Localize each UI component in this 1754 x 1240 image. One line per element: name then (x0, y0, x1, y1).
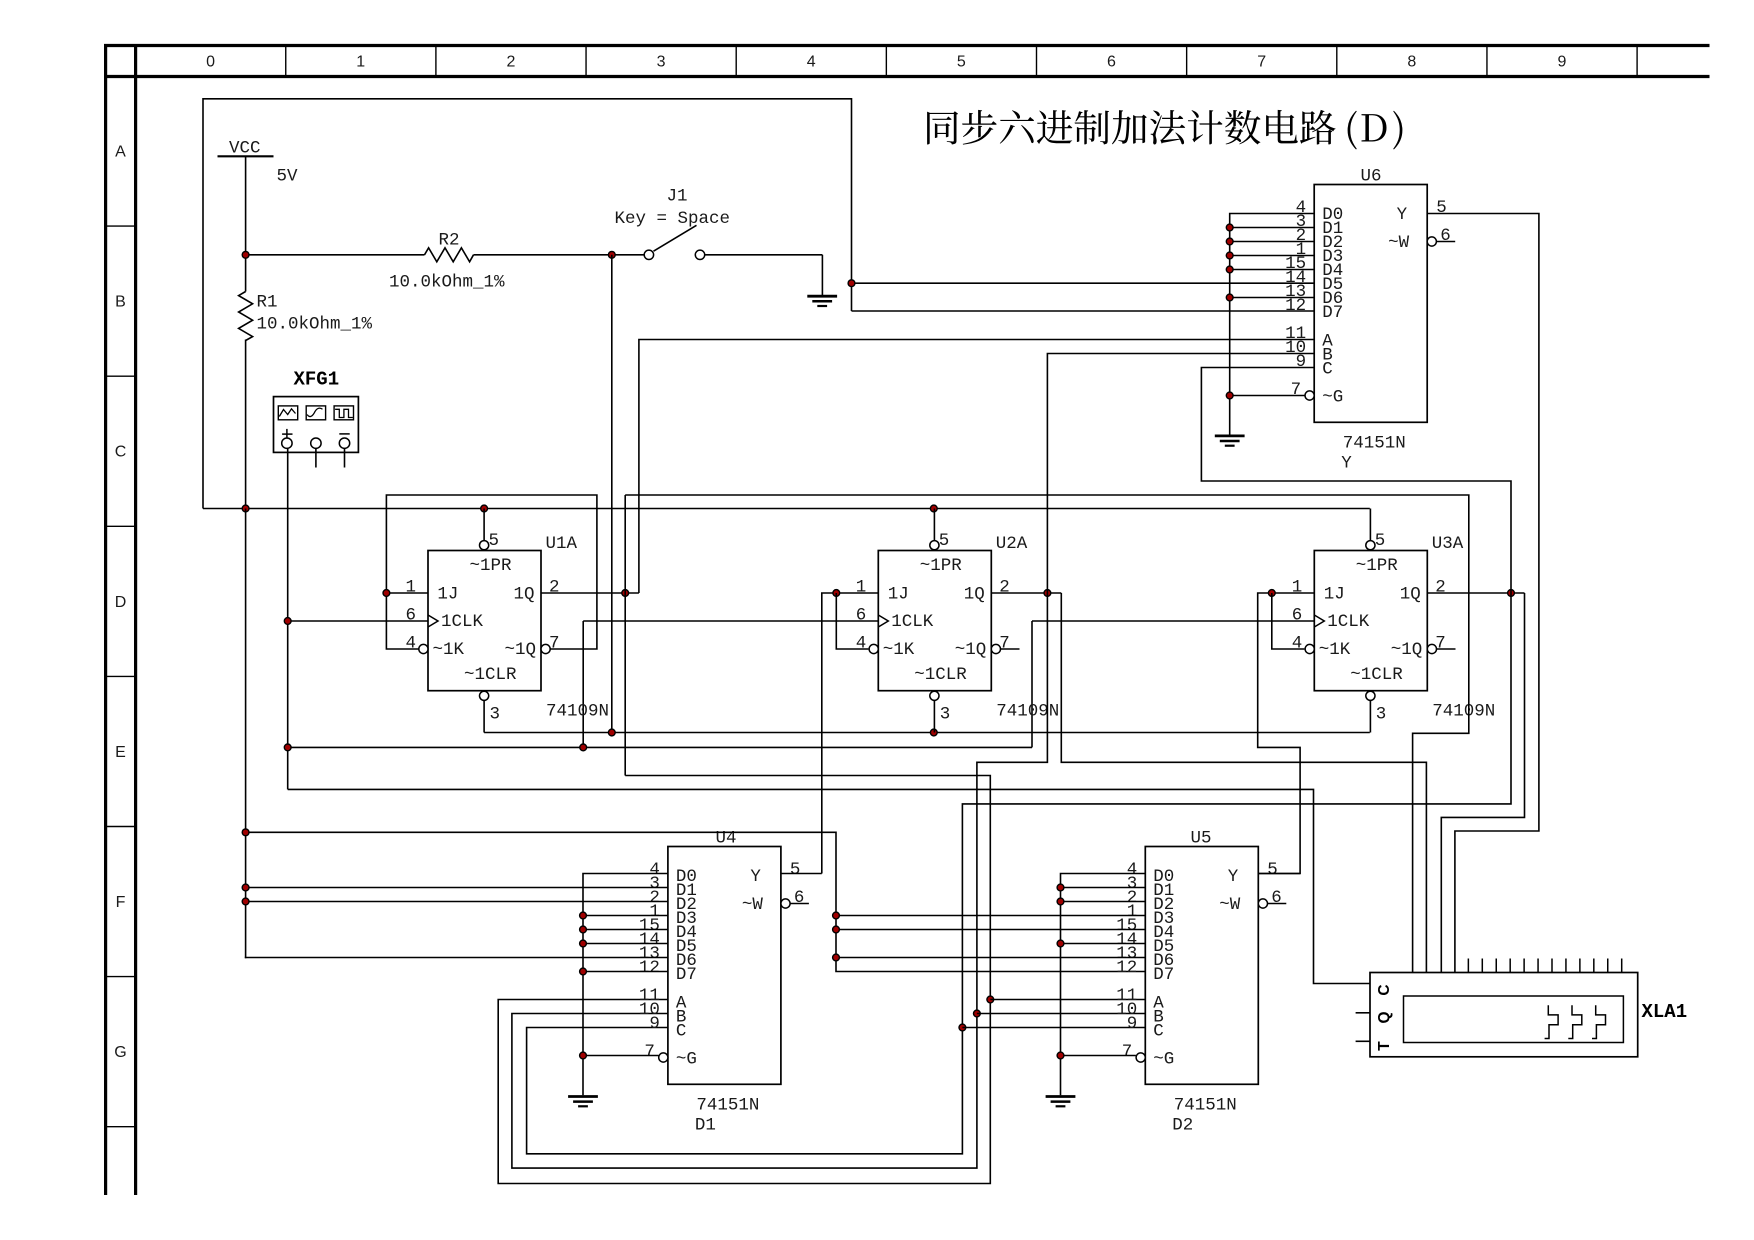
svg-text:~1CLR: ~1CLR (914, 665, 967, 685)
U5 ~W bubble (1258, 899, 1267, 908)
wire clock seg U3A (1032, 620, 1314, 622)
wire QC to XLA1 (1441, 593, 1524, 973)
junction QC U5C (959, 1024, 966, 1031)
wire U5 D3 (836, 915, 1145, 917)
svg-text:D7: D7 (1322, 303, 1343, 323)
wire QA upper run (625, 495, 1469, 973)
wire QB left run (512, 593, 1048, 1168)
svg-text:6: 6 (1292, 606, 1303, 626)
wire U4 D2 (246, 901, 668, 903)
svg-text:~W: ~W (1388, 233, 1410, 253)
U6 ~G bubble (1305, 391, 1314, 400)
svg-text:Y: Y (1228, 867, 1239, 887)
wire QA to U6 A (639, 340, 1314, 594)
XLA1 Q stub (1356, 1012, 1370, 1014)
svg-text:VCC: VCC (229, 139, 261, 159)
wire U6 D4 (1230, 269, 1315, 271)
U1A ~1PR stub (483, 509, 485, 541)
svg-text:Y: Y (750, 867, 761, 887)
U3A ~1K bubble (1305, 644, 1314, 653)
U2A ~1PR bubble (930, 541, 939, 550)
svg-text:J1: J1 (667, 186, 688, 206)
svg-text:U2A: U2A (996, 534, 1028, 554)
junction U4 D3 (580, 912, 587, 919)
U6 ~W stub (1436, 241, 1455, 243)
wire clock rail (288, 746, 1032, 748)
junction U1A PR (481, 505, 488, 512)
svg-text:5: 5 (939, 531, 950, 551)
svg-text:7: 7 (549, 634, 560, 654)
wire U5 B (977, 1013, 1145, 1015)
U2A ~1PR stub (933, 509, 935, 541)
ground (U6) (1215, 434, 1245, 437)
U3A ~1CLR bubble (1366, 691, 1375, 700)
column dividers (285, 46, 287, 76)
svg-text:1J: 1J (1324, 584, 1345, 604)
svg-text:0: 0 (206, 54, 215, 71)
wire U5 D5 (1061, 943, 1146, 945)
wire U2A ~1Q stub (1001, 648, 1020, 650)
svg-text:~1Q: ~1Q (1391, 640, 1423, 660)
svg-text:74151N: 74151N (1174, 1095, 1237, 1115)
flip-flop U1A 74109N (428, 551, 541, 691)
wire U5 ground bus (1061, 874, 1146, 1096)
wire PR rail (203, 508, 1370, 510)
junction clk1 (284, 618, 291, 625)
svg-text:~1Q: ~1Q (955, 640, 987, 660)
svg-text:3: 3 (657, 54, 666, 71)
wire U4-U5 high rail (246, 832, 1146, 971)
svg-text:4: 4 (807, 54, 816, 71)
wire U6 D1 (1230, 227, 1315, 229)
wire QA riser (624, 495, 626, 776)
svg-text:1CLK: 1CLK (891, 612, 934, 632)
junction U5 D4 (833, 926, 840, 933)
junction J1-CLR (608, 729, 615, 736)
svg-text:C: C (115, 444, 127, 461)
svg-text:7: 7 (1122, 1042, 1133, 1062)
U4 ~W stub (790, 903, 809, 905)
svg-text:9: 9 (1296, 352, 1307, 372)
border frame outer (104, 44, 1710, 47)
wire U5 D6 (836, 957, 1145, 959)
wire U6 D2 (1230, 241, 1315, 243)
junction clk2 (284, 744, 291, 751)
junction QB U5B (974, 1010, 981, 1017)
svg-text:D7: D7 (1153, 965, 1174, 985)
row dividers (106, 225, 136, 227)
svg-text:1CLK: 1CLK (1327, 612, 1370, 632)
wire U5 C (962, 1027, 1145, 1029)
wire U4 D1 (246, 887, 668, 889)
svg-text:1Q: 1Q (513, 584, 534, 604)
U5 ~W stub (1268, 903, 1287, 905)
wire U1A 1J stub (386, 592, 428, 594)
wire U5 D2 (1061, 901, 1146, 903)
wire U4 ~G (583, 1055, 659, 1057)
svg-text:74151N: 74151N (696, 1095, 759, 1115)
wire U2A JK link (836, 593, 868, 649)
svg-text:T: T (1376, 1041, 1393, 1051)
wire VCC top loop (203, 99, 852, 509)
junction U6 D4 (1226, 266, 1233, 273)
multiplexer U6 74151N (1314, 185, 1427, 423)
wire U3A 1Q (1427, 592, 1524, 594)
wire U5 D1 (1061, 887, 1146, 889)
U1A ~1CLR stub (483, 701, 485, 733)
U4 ~W bubble (781, 899, 790, 908)
wire XFG1 riser (287, 448, 289, 789)
junction U2A PR (930, 505, 937, 512)
junction R1-PR (242, 505, 249, 512)
junction U4 D4 (580, 926, 587, 933)
junction U5 D2 (1057, 898, 1064, 905)
svg-text:U4: U4 (716, 828, 737, 848)
wire U1A feedback (386, 495, 597, 649)
svg-text:XLA1: XLA1 (1642, 1001, 1688, 1023)
svg-text:C: C (1322, 360, 1333, 380)
svg-text:5V: 5V (277, 167, 299, 187)
junction U6 D3 (1226, 252, 1233, 259)
junction U5 D3 (833, 912, 840, 919)
svg-text:~1CLR: ~1CLR (464, 665, 517, 685)
wire U6 D5 high (852, 282, 1315, 284)
svg-text:6: 6 (1107, 54, 1116, 71)
svg-text:5: 5 (1267, 860, 1278, 880)
junction high rail (242, 829, 249, 836)
wire U6 D6 (1230, 297, 1315, 299)
svg-text:74109N: 74109N (1432, 702, 1495, 722)
svg-text:~1PR: ~1PR (470, 556, 513, 576)
wire U6 ~G (1230, 395, 1305, 397)
wire U5 Y (1258, 873, 1300, 875)
svg-text:U1A: U1A (546, 534, 578, 554)
svg-text:~G: ~G (676, 1050, 697, 1070)
svg-text:~G: ~G (1153, 1050, 1174, 1070)
wire U6 B drop (1047, 354, 1314, 594)
wire U5 A (990, 999, 1145, 1001)
junction U4 D1 (242, 884, 249, 891)
wire clock riser2 (1031, 621, 1033, 747)
svg-text:6: 6 (405, 606, 416, 626)
svg-text:1J: 1J (888, 584, 909, 604)
svg-text:~1CLR: ~1CLR (1350, 665, 1403, 685)
junction U4 D7 (580, 968, 587, 975)
svg-text:A: A (115, 144, 126, 161)
junction U6 D1 (1226, 224, 1233, 231)
svg-text:6: 6 (1440, 226, 1451, 246)
wire U6 D7 high (852, 310, 1315, 312)
svg-text:3: 3 (940, 705, 951, 725)
junction U5 D6 (833, 954, 840, 961)
wire U6 C net (527, 368, 1511, 1154)
svg-text:8: 8 (1407, 54, 1416, 71)
wire U4 D6 (246, 957, 668, 960)
svg-text:7: 7 (1435, 634, 1446, 654)
wire U2A 1Q (991, 592, 1061, 594)
svg-text:Y: Y (1341, 454, 1352, 474)
U2A ~1Q bubble (991, 644, 1000, 653)
wire clock seg U2A (583, 620, 878, 622)
svg-text:~G: ~G (1322, 388, 1343, 408)
svg-text:6: 6 (856, 606, 867, 626)
wire U1A 1Q (541, 592, 639, 594)
wire U3A ~1Q stub (1437, 648, 1456, 650)
svg-text:5: 5 (957, 54, 966, 71)
svg-text:C: C (1376, 984, 1393, 995)
svg-text:7: 7 (999, 634, 1010, 654)
svg-text:74109N: 74109N (996, 702, 1059, 722)
junction U5 ~G (1057, 1052, 1064, 1059)
U4 ~G bubble (659, 1053, 668, 1062)
svg-text:10.0kOhm_1%: 10.0kOhm_1% (257, 315, 373, 335)
svg-text:12: 12 (639, 958, 660, 978)
junction QC (1508, 590, 1515, 597)
junction U2A J-K (833, 590, 840, 597)
wire U6 Y run (1427, 214, 1539, 973)
junction clk3 (580, 744, 587, 751)
svg-text:U5: U5 (1191, 828, 1212, 848)
svg-text:D: D (115, 594, 127, 611)
function generator XFG1 (274, 397, 359, 453)
svg-text:1CLK: 1CLK (441, 612, 484, 632)
multiplexer U5 74151N (1145, 847, 1258, 1085)
VCC symbol (218, 155, 274, 157)
svg-text:F: F (116, 894, 126, 911)
svg-text:U6: U6 (1361, 166, 1382, 186)
svg-text:R2: R2 (439, 230, 460, 250)
wire QA lower run (498, 776, 990, 1184)
flip-flop U3A 74109N (1314, 551, 1427, 691)
svg-text:U3A: U3A (1432, 534, 1464, 554)
svg-text:1Q: 1Q (1400, 584, 1421, 604)
junction QA (622, 590, 629, 597)
svg-text:2: 2 (999, 578, 1010, 598)
flip-flop U2A 74109N (878, 551, 991, 691)
wire J1-CLR drop (611, 255, 613, 733)
resistor R1 (245, 255, 247, 292)
ground (U5) (1046, 1095, 1076, 1098)
svg-text:G: G (114, 1044, 126, 1061)
svg-text:~W: ~W (742, 895, 764, 915)
svg-text:12: 12 (1285, 296, 1306, 316)
wire U6 D3 (1230, 255, 1315, 257)
svg-text:1Q: 1Q (964, 584, 985, 604)
wire clock seg U1A (288, 620, 428, 622)
svg-text:9: 9 (1127, 1014, 1138, 1034)
svg-text:9: 9 (1557, 54, 1566, 71)
svg-text:7: 7 (1291, 380, 1302, 400)
junction U4 D2 (242, 898, 249, 905)
junction U3A J-K (1268, 590, 1275, 597)
wire U3A JK link (1272, 593, 1305, 649)
junction U6 D6 (1226, 294, 1233, 301)
svg-text:4: 4 (1292, 634, 1303, 654)
XLA1 T stub (1356, 1040, 1370, 1042)
junction U6 ~G (1226, 392, 1233, 399)
wire U4 ground bus (583, 874, 668, 1096)
svg-text:7: 7 (1257, 54, 1266, 71)
junction U6 D2 (1226, 238, 1233, 245)
wire U4 D7 (583, 971, 668, 973)
junction QB U6B (1044, 590, 1051, 597)
junction U2A CLR (930, 729, 937, 736)
svg-text:Y: Y (1397, 205, 1408, 225)
svg-text:5: 5 (1436, 198, 1447, 218)
U2A ~1CLR stub (933, 701, 935, 733)
junction U4 D5 (580, 940, 587, 947)
svg-text:1: 1 (405, 578, 416, 598)
XLA1 waveform icon (1545, 1005, 1559, 1038)
svg-text:4: 4 (856, 634, 867, 654)
junction VCC-R2 (242, 251, 249, 258)
svg-text:B: B (115, 294, 126, 311)
svg-text:Q: Q (1376, 1011, 1393, 1023)
wire CLR rail (484, 732, 1370, 734)
junction U4 ~G (580, 1052, 587, 1059)
svg-text:~1K: ~1K (433, 640, 465, 660)
U5 ~G bubble (1136, 1053, 1145, 1062)
svg-text:D7: D7 (676, 965, 697, 985)
svg-text:~1K: ~1K (883, 640, 915, 660)
svg-text:R1: R1 (257, 293, 278, 313)
U3A ~1CLR stub (1369, 701, 1371, 733)
logic analyzer XLA1 (1370, 973, 1638, 1057)
svg-text:2: 2 (1435, 578, 1446, 598)
wire clock to XLA1 C (288, 789, 1370, 983)
wire U4 Y (781, 873, 822, 875)
svg-text:D1: D1 (695, 1115, 716, 1135)
wire J1 to ground (821, 255, 823, 296)
svg-text:C: C (1153, 1022, 1164, 1042)
svg-text:1J: 1J (437, 584, 458, 604)
wire U5 ~G (1061, 1055, 1136, 1057)
wire QB right run (1061, 593, 1426, 973)
svg-text:2: 2 (549, 578, 560, 598)
junction top loop D5 (848, 280, 855, 287)
ground (U4) (568, 1095, 598, 1098)
svg-text:7: 7 (644, 1042, 655, 1062)
svg-text:4: 4 (405, 634, 416, 654)
wire U4 D5 (583, 943, 668, 945)
svg-text:10.0kOhm_1%: 10.0kOhm_1% (389, 273, 505, 293)
ground (J1) (807, 295, 837, 298)
U2A ~1CLR bubble (930, 691, 939, 700)
svg-text:2: 2 (506, 54, 515, 71)
svg-text:~1PR: ~1PR (1356, 556, 1399, 576)
svg-text:5: 5 (1375, 531, 1386, 551)
U3A ~1PR bubble (1366, 541, 1375, 550)
U2A ~1K bubble (869, 644, 878, 653)
switch J1 (612, 254, 644, 256)
junction U5 D5 (1057, 940, 1064, 947)
svg-text:C: C (676, 1022, 687, 1042)
U3A ~1Q bubble (1427, 644, 1436, 653)
junction R2-J1 (608, 251, 615, 258)
wire U6 ground bus (1230, 214, 1315, 436)
svg-text:5: 5 (489, 531, 500, 551)
svg-text:Key = Space: Key = Space (615, 209, 731, 229)
title text (927, 110, 1402, 150)
U1A ~1K bubble (419, 644, 428, 653)
resistor R2 (246, 254, 425, 256)
wire clock riser1 (582, 621, 584, 747)
wire U5 D4 (836, 929, 1145, 931)
svg-text:1: 1 (1292, 578, 1303, 598)
svg-text:1: 1 (856, 578, 867, 598)
svg-text:XFG1: XFG1 (294, 368, 340, 390)
junction QA U5A (987, 996, 994, 1003)
wire U4 D3 (583, 915, 668, 917)
junction U1A J-K (383, 590, 390, 597)
U1A ~1Q bubble (541, 644, 550, 653)
svg-text:~1PR: ~1PR (920, 556, 963, 576)
svg-text:~1K: ~1K (1319, 640, 1351, 660)
wire U2A 1J net (822, 593, 879, 874)
wire U4 high bus (245, 509, 247, 959)
svg-text:D2: D2 (1172, 1115, 1193, 1135)
svg-text:9: 9 (649, 1014, 660, 1034)
svg-text:3: 3 (490, 705, 501, 725)
svg-text:3: 3 (1376, 705, 1387, 725)
svg-text:74109N: 74109N (546, 702, 609, 722)
svg-text:6: 6 (1271, 888, 1282, 908)
U3A ~1PR stub (1369, 509, 1371, 541)
svg-text:5: 5 (790, 860, 801, 880)
wire U4 D4 (583, 929, 668, 931)
U1A ~1PR bubble (480, 541, 489, 550)
U1A ~1CLR bubble (480, 691, 489, 700)
svg-text:E: E (115, 744, 126, 761)
svg-text:6: 6 (794, 888, 805, 908)
U6 ~W bubble (1427, 237, 1436, 246)
svg-text:~W: ~W (1219, 895, 1241, 915)
wire U5Y to U3A J (1258, 593, 1315, 874)
svg-text:74151N: 74151N (1343, 434, 1406, 454)
multiplexer U4 74151N (668, 847, 781, 1085)
svg-text:~1Q: ~1Q (504, 640, 536, 660)
junction U5 D1 (1057, 884, 1064, 891)
svg-text:12: 12 (1116, 958, 1137, 978)
svg-text:1: 1 (356, 54, 365, 71)
